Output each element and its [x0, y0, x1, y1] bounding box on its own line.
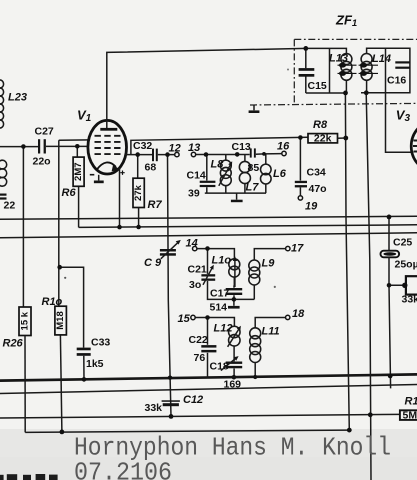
svg-text:C22: C22: [189, 334, 208, 346]
svg-text:C13: C13: [232, 141, 251, 153]
svg-text:68: 68: [145, 162, 157, 174]
svg-text:27k: 27k: [133, 184, 144, 201]
svg-text:C34: C34: [307, 167, 326, 179]
svg-text:39: 39: [188, 188, 200, 200]
svg-text:M18: M18: [55, 311, 66, 329]
svg-text:R26: R26: [3, 338, 24, 350]
svg-text:C12: C12: [183, 394, 203, 406]
svg-text:C21: C21: [188, 264, 207, 276]
svg-text:22k: 22k: [314, 133, 332, 145]
svg-text:12: 12: [169, 143, 181, 155]
svg-text:169: 169: [224, 379, 242, 391]
svg-text:C16: C16: [387, 75, 406, 87]
svg-text:13: 13: [188, 142, 200, 154]
svg-text:R7: R7: [148, 199, 163, 211]
svg-text:C14: C14: [187, 170, 206, 182]
svg-text:L23: L23: [8, 92, 27, 104]
svg-text:L9: L9: [262, 258, 276, 270]
svg-text:15 k: 15 k: [20, 311, 31, 330]
svg-text:L6: L6: [273, 168, 287, 180]
svg-text:R1o: R1o: [42, 296, 63, 308]
svg-text:L1o: L1o: [212, 255, 232, 267]
svg-text:C 9: C 9: [144, 257, 162, 269]
svg-text:C32: C32: [133, 140, 152, 152]
svg-text:33k: 33k: [145, 402, 163, 414]
svg-text:R8: R8: [313, 119, 328, 131]
svg-text:C18: C18: [210, 361, 229, 373]
svg-text:L7: L7: [246, 182, 260, 194]
svg-text:47o: 47o: [309, 183, 327, 195]
svg-text:5M: 5M: [403, 409, 417, 421]
svg-text:15: 15: [178, 313, 191, 325]
svg-text:C25: C25: [393, 237, 412, 249]
svg-text:C15: C15: [308, 80, 327, 92]
svg-text:L12: L12: [214, 323, 233, 335]
svg-text:2M7: 2M7: [73, 162, 84, 180]
svg-text:C27: C27: [35, 126, 54, 138]
svg-text:R1: R1: [405, 396, 417, 408]
svg-text:76: 76: [194, 352, 206, 364]
svg-text:514: 514: [210, 302, 228, 314]
svg-text:R6: R6: [62, 187, 77, 199]
svg-text:85: 85: [248, 162, 260, 174]
svg-text:18: 18: [292, 308, 305, 320]
svg-text:07.2106: 07.2106: [74, 458, 172, 480]
svg-text:C33: C33: [91, 337, 110, 349]
svg-text:3o: 3o: [189, 279, 201, 291]
svg-text:L14: L14: [372, 53, 391, 65]
svg-text:33k: 33k: [402, 294, 417, 306]
svg-text:16: 16: [277, 141, 290, 153]
svg-text:L8: L8: [211, 159, 225, 171]
svg-text:14: 14: [186, 238, 198, 250]
svg-text:C17: C17: [210, 288, 229, 300]
svg-text:17: 17: [291, 243, 304, 255]
svg-text:25oµ: 25oµ: [395, 259, 417, 271]
svg-text:22o: 22o: [33, 156, 51, 168]
svg-text:1k5: 1k5: [86, 358, 104, 370]
svg-text:L11: L11: [262, 326, 280, 338]
svg-text:19: 19: [305, 201, 318, 213]
svg-text:L13: L13: [329, 53, 348, 65]
svg-text:22: 22: [4, 200, 16, 212]
